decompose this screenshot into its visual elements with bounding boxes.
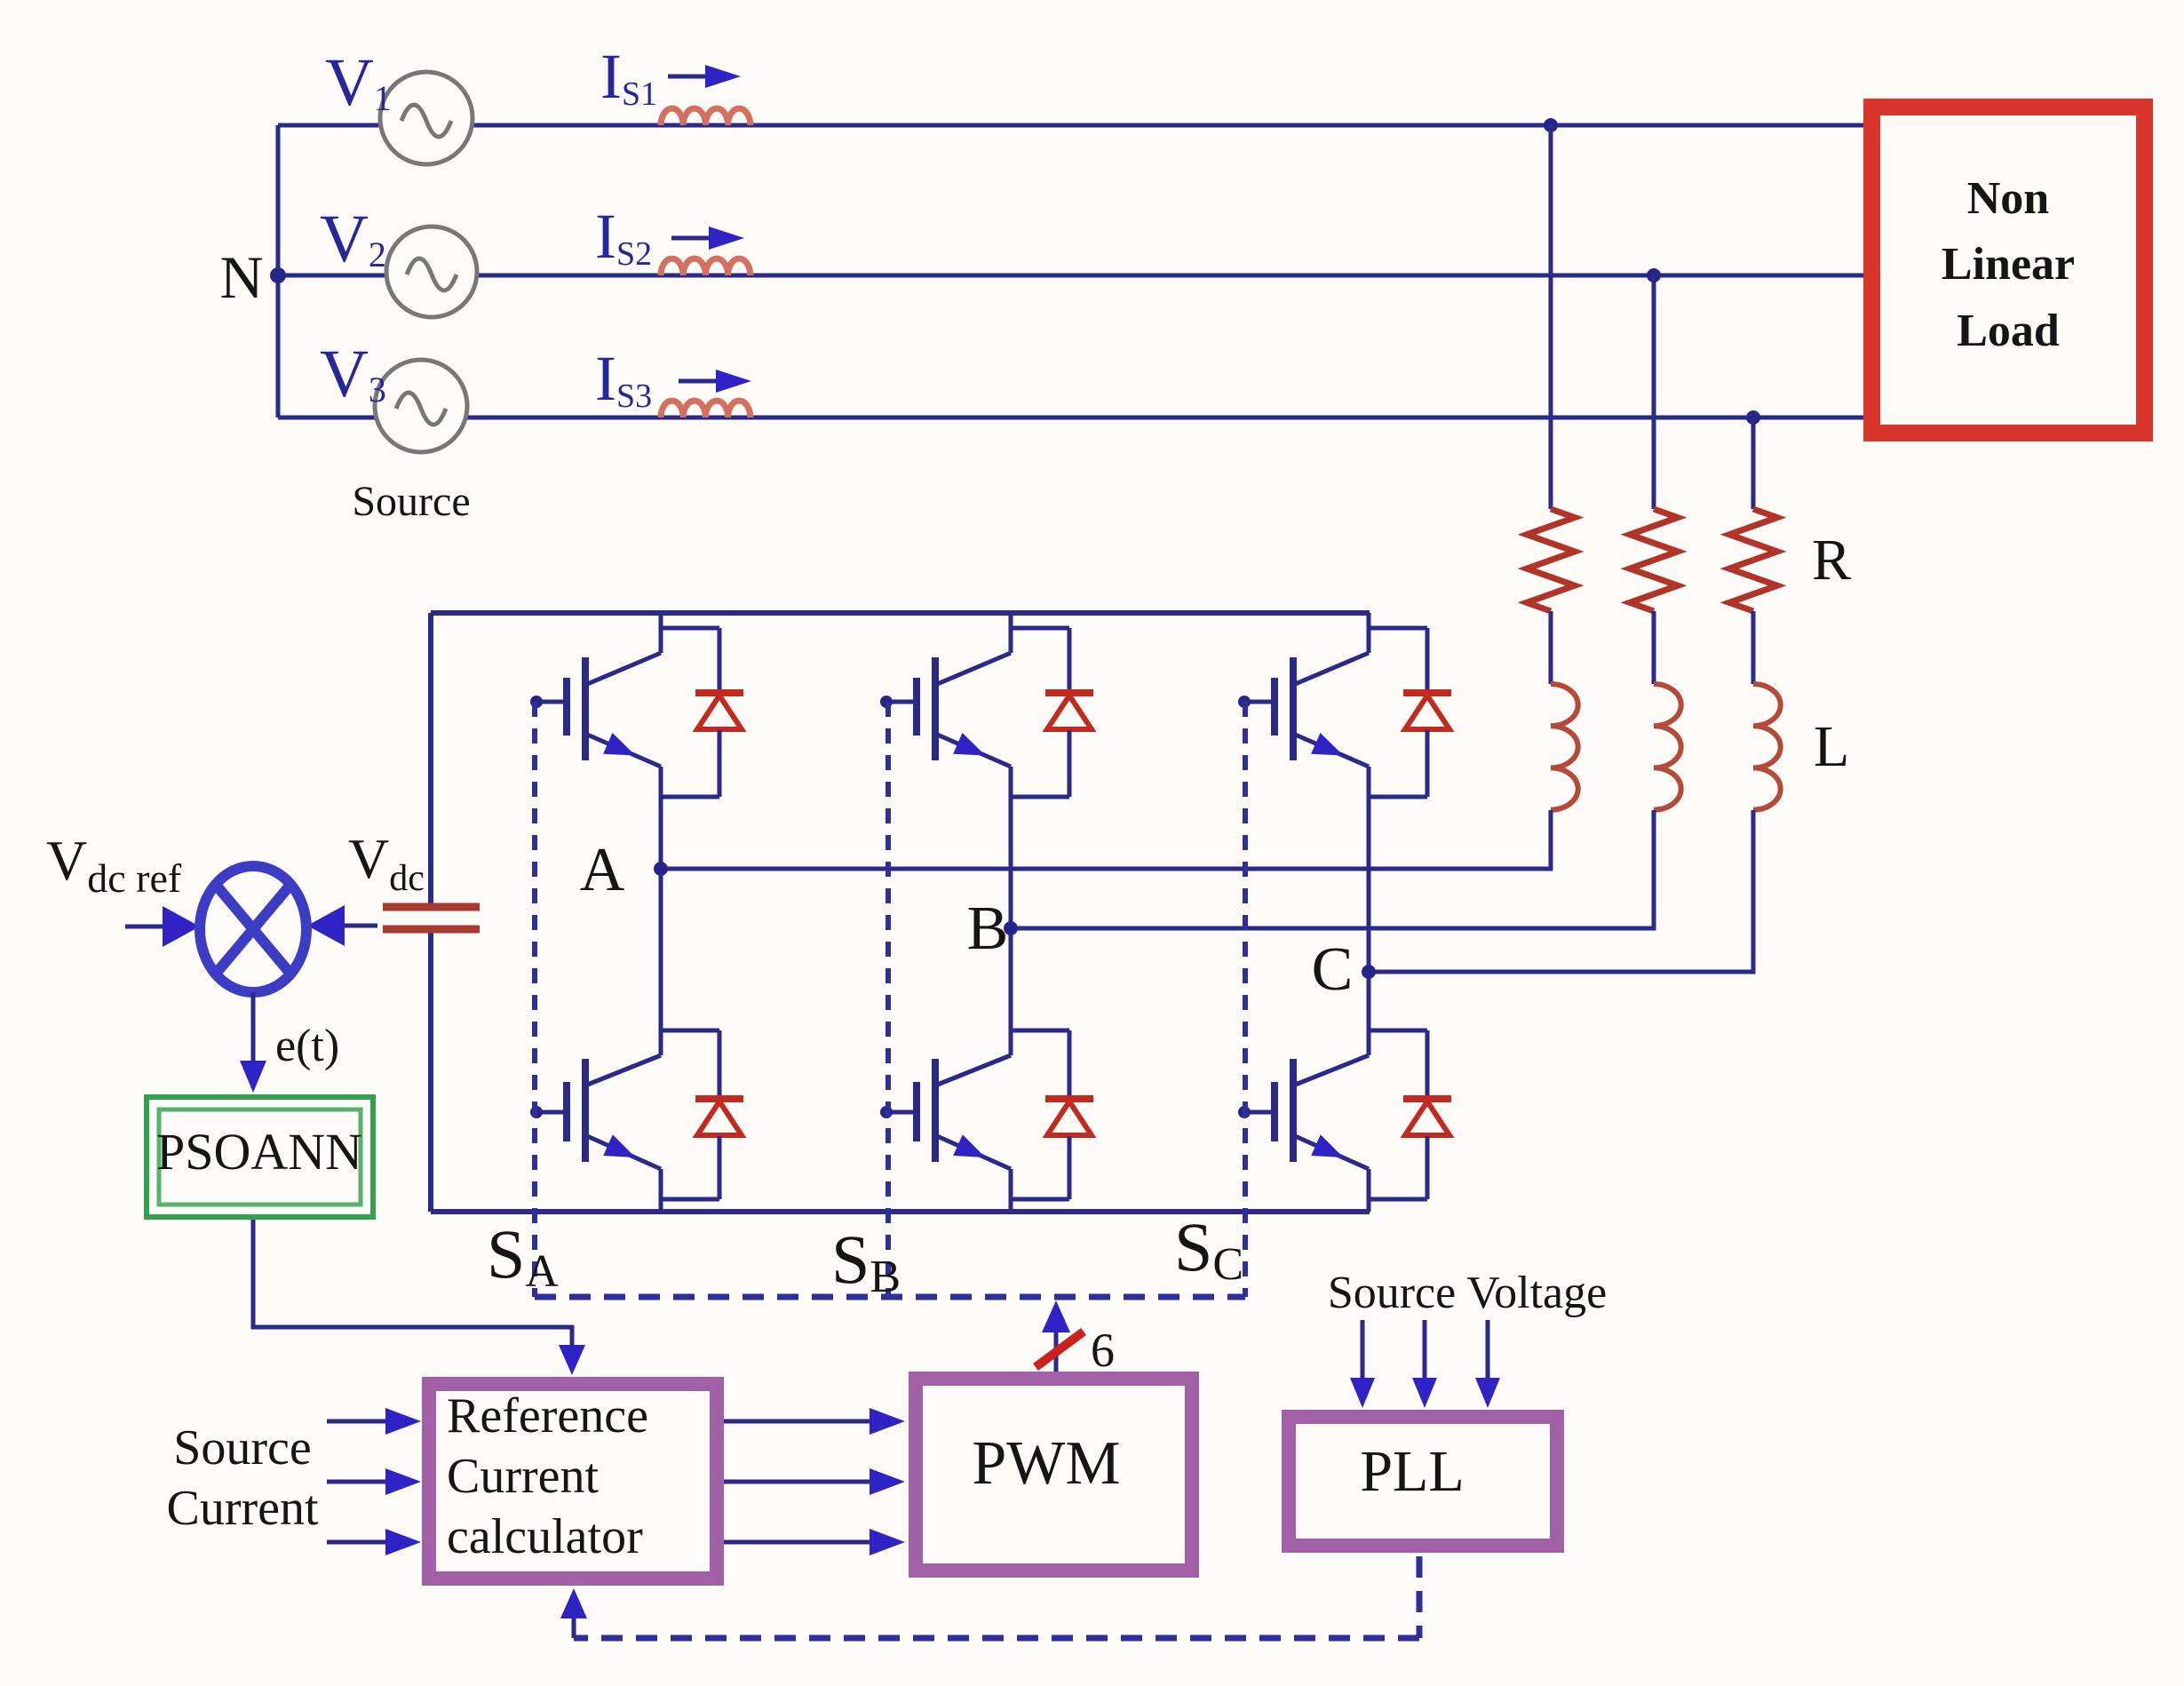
diode DA2 (antiparallel) xyxy=(695,1095,743,1102)
node B xyxy=(1004,921,1018,935)
node C xyxy=(1362,965,1376,979)
svg-text:calculator: calculator xyxy=(447,1509,643,1564)
wire: filter leg 2 to node B xyxy=(1011,810,1654,928)
wire: DC left bus lower xyxy=(428,931,433,1212)
svg-text:Reference: Reference xyxy=(447,1388,648,1443)
block: PLL xyxy=(1289,1417,1557,1546)
svg-text:R: R xyxy=(1812,528,1851,592)
svg-text:C: C xyxy=(1312,935,1354,1004)
node A xyxy=(654,862,668,876)
inductor L1 xyxy=(1551,684,1578,810)
gate node dot SB1 xyxy=(880,696,893,708)
svg-text:Source: Source xyxy=(173,1420,312,1475)
svg-text:Source Voltage: Source Voltage xyxy=(1328,1268,1607,1318)
transistor SA2 IGBT xyxy=(585,1055,661,1086)
svg-text:PLL: PLL xyxy=(1360,1439,1464,1504)
arrows Source Current into Reference box xyxy=(327,1420,385,1424)
wire: phase 2 line xyxy=(278,274,1863,278)
arrow PWM to gate bus (6) xyxy=(1054,1332,1059,1372)
arrow e(t) xyxy=(251,992,256,1061)
wire: leg A bottom diode branch xyxy=(661,1029,719,1033)
svg-text:A: A xyxy=(580,836,625,904)
source V1 xyxy=(380,72,473,164)
diode DC1 (antiparallel) xyxy=(1403,689,1451,696)
wire: gate dashed line SB xyxy=(886,702,891,1297)
node N xyxy=(270,267,286,283)
gate node dot SA2 xyxy=(530,1106,543,1118)
svg-text:L: L xyxy=(1814,714,1849,779)
wire: leg B top diode branch xyxy=(1011,626,1069,631)
source V3 xyxy=(375,360,467,452)
block: Non Linear Load xyxy=(1872,107,2145,433)
wire: leg A bottom diode lower branch xyxy=(718,1136,722,1199)
wire: tap 1 vertical xyxy=(1549,125,1553,509)
inductor Ls3 xyxy=(661,401,751,418)
gate node dot SC2 xyxy=(1238,1106,1251,1118)
inductor Ls1 xyxy=(661,108,751,125)
wire: leg C top diode lower branch xyxy=(1426,730,1430,797)
wire: leg B top diode lower branch xyxy=(1068,730,1072,797)
wire: DC top rail xyxy=(431,610,1370,616)
wire: R1 to L1 xyxy=(1549,611,1553,684)
svg-text:B: B xyxy=(967,895,1009,963)
capacitor Vdc xyxy=(383,903,480,911)
wire: leg A bottom collector stub xyxy=(659,1030,663,1055)
gate node dot SB2 xyxy=(880,1106,893,1118)
wire: DC left bus upper xyxy=(428,613,433,905)
wire: leg B bottom diode lower branch xyxy=(1068,1136,1072,1199)
wire: PSOANN to Reference Current calculator xyxy=(253,1220,572,1347)
slash 6-wide bus xyxy=(1036,1332,1084,1367)
summing junction xyxy=(200,866,306,992)
svg-text:Non: Non xyxy=(1967,173,2050,224)
svg-text:PSOANN: PSOANN xyxy=(156,1123,362,1181)
svg-text:e(t): e(t) xyxy=(275,1021,339,1071)
source V2 xyxy=(386,227,477,317)
wire: leg A to bottom rail xyxy=(659,1199,663,1212)
inductor L3 xyxy=(1753,684,1781,810)
node tap phase 2 xyxy=(1647,268,1661,282)
transistor SC2 IGBT xyxy=(1293,1055,1369,1086)
wire: leg B bottom collector stub xyxy=(1009,1030,1013,1055)
wire: gate dashed line SC xyxy=(1243,702,1248,1297)
svg-text:N: N xyxy=(219,243,263,311)
wire: leg A mid vertical xyxy=(659,797,663,1030)
gate node dot SA1 xyxy=(530,696,543,708)
svg-text:Current: Current xyxy=(166,1481,319,1536)
wire: tap 3 vertical xyxy=(1751,418,1756,509)
resistor R2 xyxy=(1630,509,1678,611)
wire: leg C mid vertical xyxy=(1367,797,1371,1030)
wire: leg B top collector stub xyxy=(1009,613,1013,653)
wire: PLL feedback dashed xyxy=(1417,1556,1423,1638)
diode DB2 (antiparallel) xyxy=(1045,1095,1093,1102)
block: PWM xyxy=(916,1379,1192,1571)
arrow feedback into Reference box bottom xyxy=(572,1618,576,1638)
arrows Source Voltage into PLL xyxy=(1361,1320,1365,1378)
wire: phase 3 line xyxy=(278,416,1863,420)
arrow Vdc into summer xyxy=(345,924,377,928)
wire: filter leg 1 to node A xyxy=(661,810,1551,869)
wire: leg C top collector stub xyxy=(1367,613,1371,653)
transistor SB2 IGBT xyxy=(935,1055,1011,1086)
svg-text:Source: Source xyxy=(352,478,470,525)
wire: DC bottom rail xyxy=(431,1209,1370,1214)
transistor SB1 IGBT xyxy=(935,653,1011,685)
wire: leg C top diode branch xyxy=(1369,626,1427,631)
inductor L2 xyxy=(1654,684,1681,810)
transistor SC1 IGBT xyxy=(1293,653,1369,685)
wire: R3 to L3 xyxy=(1751,611,1756,684)
arrow Vdc ref into summer xyxy=(125,925,163,929)
svg-text:Current: Current xyxy=(447,1449,600,1504)
arrow Is1 xyxy=(668,75,705,79)
resistor R3 xyxy=(1729,509,1777,611)
diode DC2 (antiparallel) xyxy=(1403,1095,1451,1102)
arrows Reference box to PWM xyxy=(724,1420,870,1424)
svg-text:PWM: PWM xyxy=(972,1429,1120,1498)
arrow Is3 xyxy=(679,379,716,384)
wire: gate dashed line SA xyxy=(532,702,537,1297)
wire: R2 to L2 xyxy=(1652,611,1656,684)
wire: leg B bottom diode branch xyxy=(1011,1029,1069,1033)
wire: filter leg 3 to node C xyxy=(1369,810,1753,972)
wire: leg C to bottom rail xyxy=(1367,1199,1371,1212)
transistor SA1 IGBT xyxy=(585,653,661,685)
wire: leg A top diode branch xyxy=(661,626,719,631)
wire: neutral vertical xyxy=(276,125,281,418)
wire: leg B to bottom rail xyxy=(1009,1199,1013,1212)
wire: phase 1 line xyxy=(278,123,1863,128)
diode DA1 (antiparallel) xyxy=(695,689,743,696)
resistor R1 xyxy=(1527,509,1575,611)
block: Reference Current calculator xyxy=(429,1384,717,1579)
wire: leg B mid vertical xyxy=(1009,797,1013,1030)
svg-text:Linear: Linear xyxy=(1942,239,2075,290)
wire: tap 2 vertical xyxy=(1652,275,1656,509)
node tap phase 1 xyxy=(1544,118,1558,132)
wire: leg C bottom collector stub xyxy=(1367,1030,1371,1055)
inductor Ls2 xyxy=(661,258,751,275)
wire: leg A top collector stub xyxy=(659,613,663,653)
arrow Is2 xyxy=(671,236,709,241)
block: PSOANN xyxy=(147,1097,373,1217)
diode DB1 (antiparallel) xyxy=(1045,689,1093,696)
wire: leg C bottom diode branch xyxy=(1369,1029,1427,1033)
wire: gate dashed bus horizontal xyxy=(535,1294,1245,1300)
wire: leg C bottom diode lower branch xyxy=(1426,1136,1430,1199)
wire: leg A top diode lower branch xyxy=(718,730,722,797)
gate node dot SC1 xyxy=(1238,696,1251,708)
svg-text:Load: Load xyxy=(1957,306,2060,356)
svg-text:6: 6 xyxy=(1091,1324,1115,1377)
node tap phase 3 xyxy=(1746,410,1760,425)
